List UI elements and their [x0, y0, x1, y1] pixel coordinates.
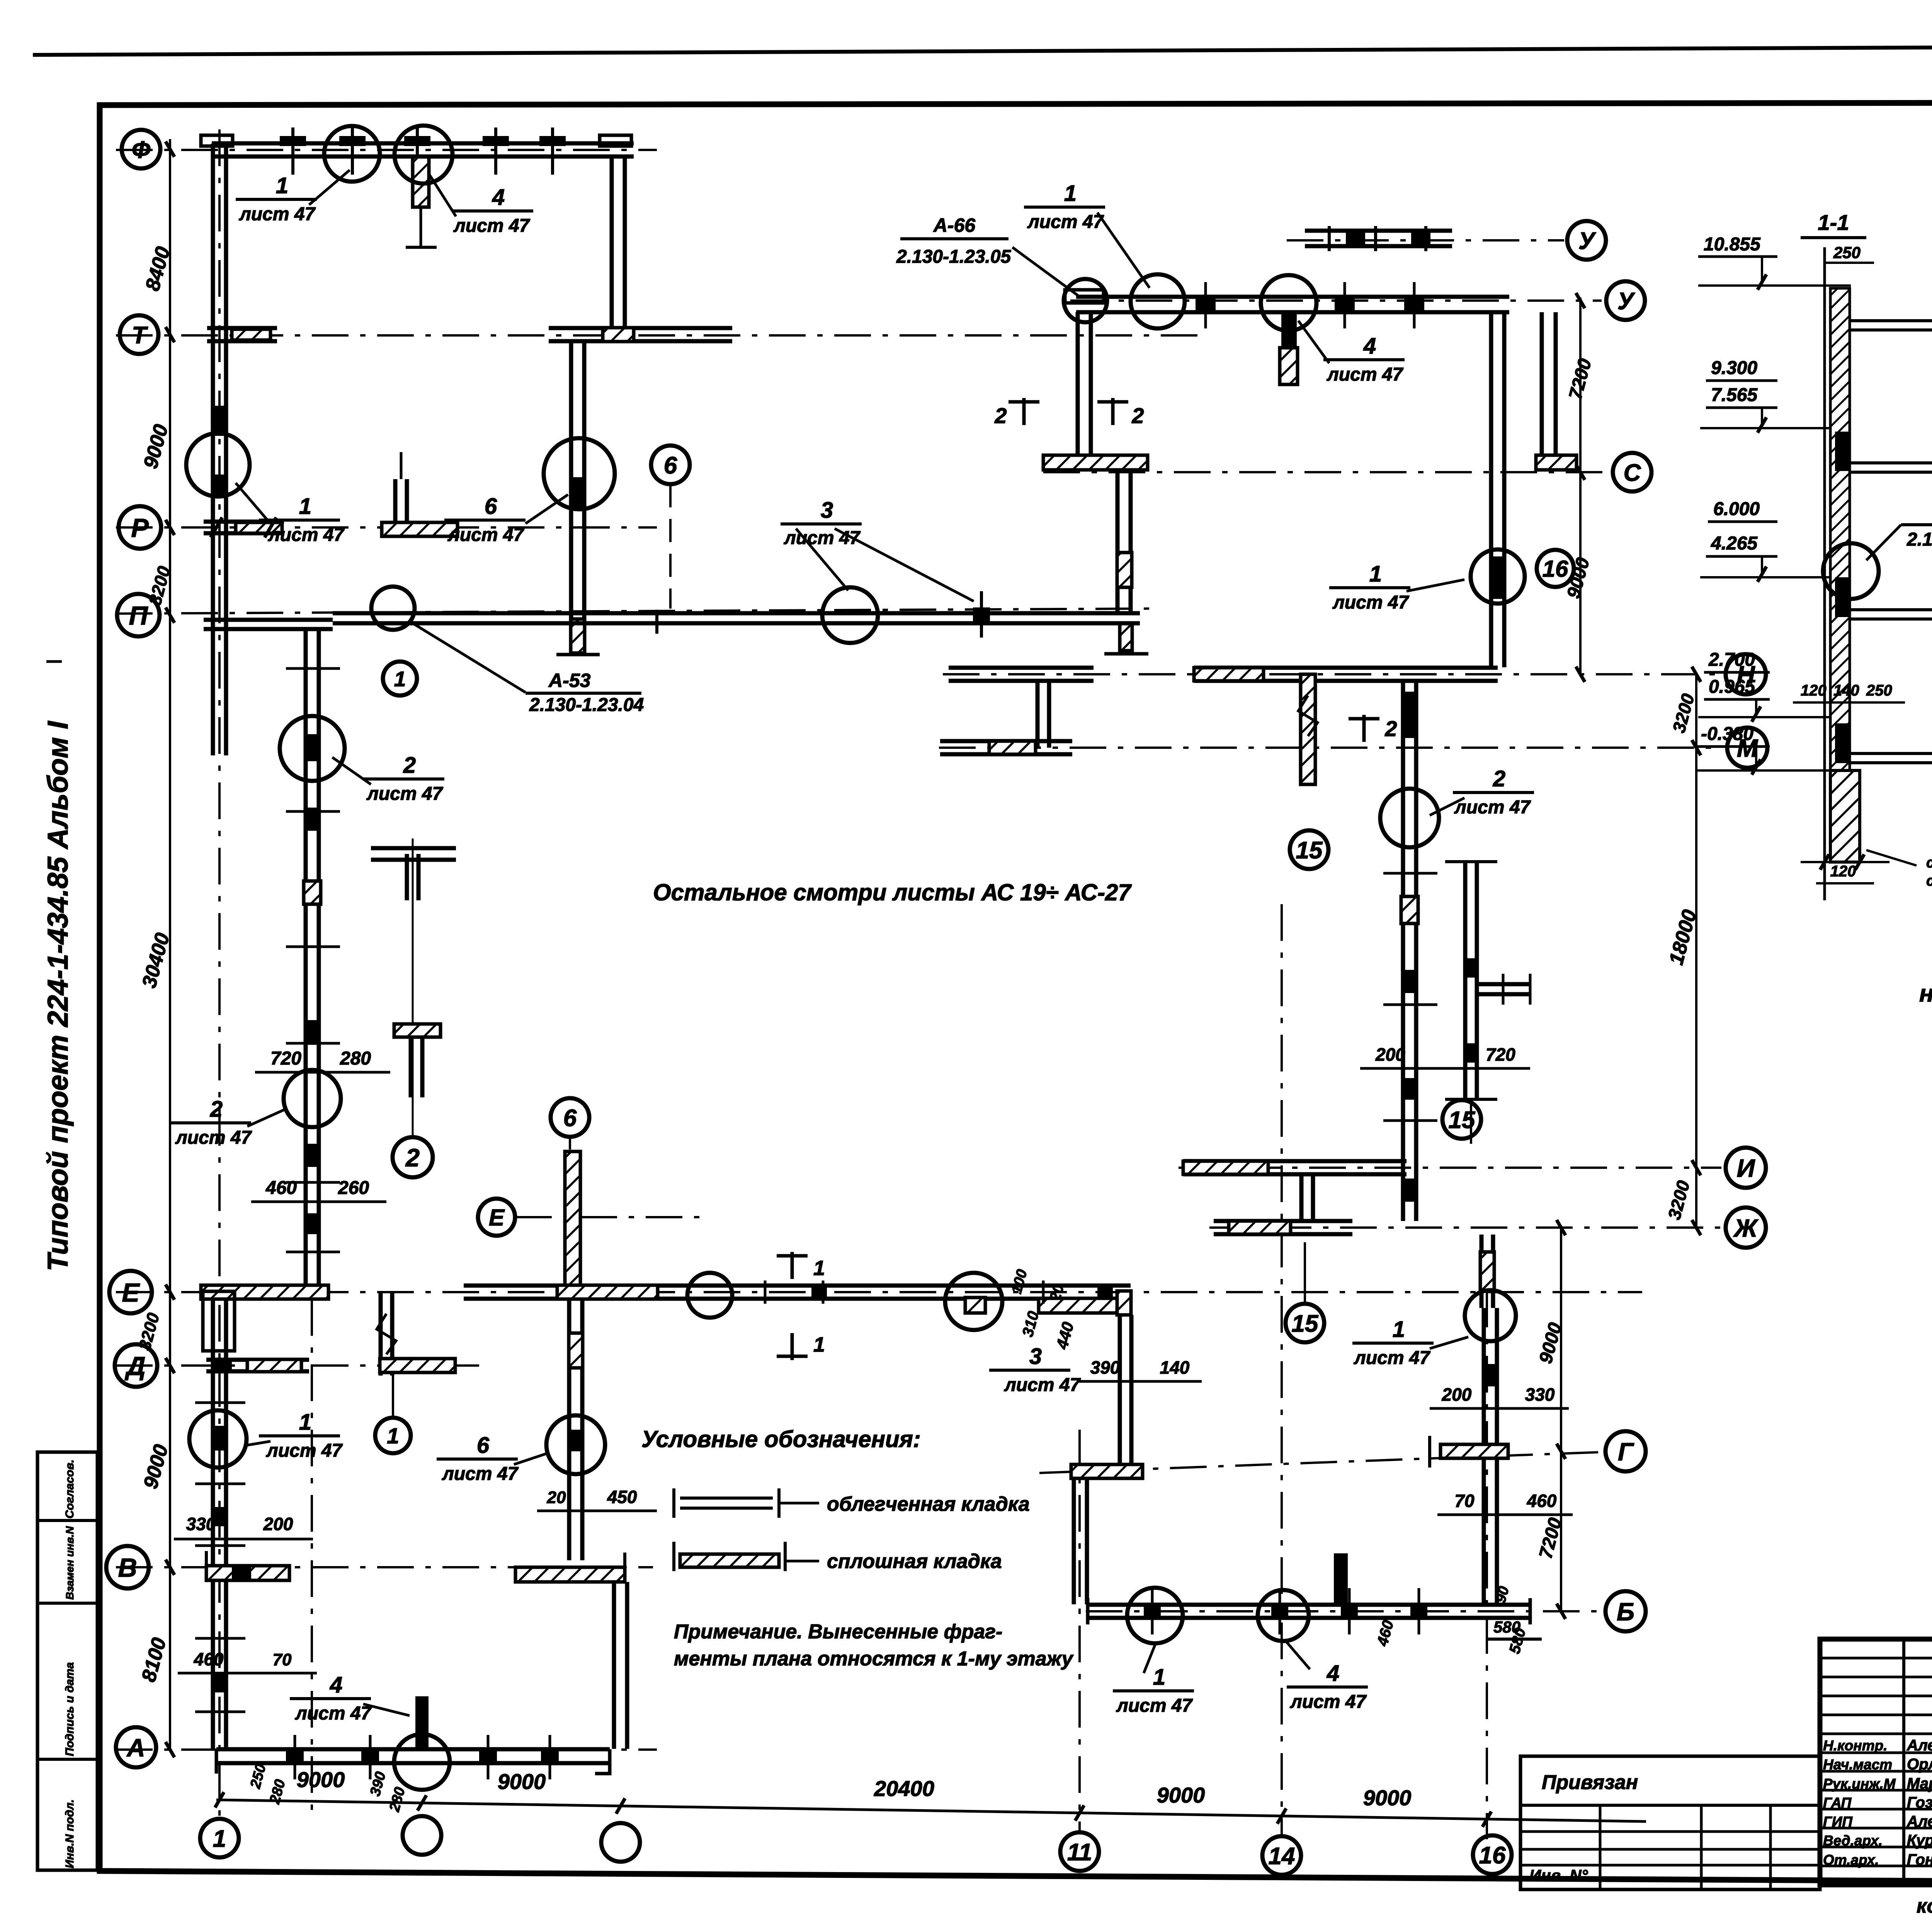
detail circle on F wall 2 — [395, 126, 452, 184]
corner at G — [1071, 1464, 1143, 1478]
G axis tick — [1428, 1436, 1431, 1468]
break zigzag — [1298, 696, 1318, 736]
svg-text:лист 47: лист 47 — [1354, 1348, 1431, 1368]
svg-text:2.130-1.23.18: 2.130-1.23.18 — [1906, 529, 1932, 550]
privyazan columns — [1599, 1805, 1602, 1889]
svg-text:6: 6 — [664, 452, 677, 479]
hatched pier at bottom of T-P wall — [571, 619, 585, 653]
axis 14 vertical line — [1281, 904, 1283, 1835]
detail circle a2 upper — [280, 716, 345, 781]
svg-text:лист 47: лист 47 — [447, 525, 525, 545]
svg-text:70: 70 — [1454, 1491, 1475, 1511]
wall along upper U axis — [1305, 229, 1452, 233]
axis2 thin line E-A — [311, 1299, 313, 1816]
fragment circle 1 — [375, 1418, 411, 1453]
wall along R axis left — [204, 520, 284, 524]
axis 16 bottom circle — [1473, 1835, 1512, 1874]
E long wall — [464, 1284, 1131, 1288]
wall along T axis — [549, 326, 732, 330]
leader lines 3 to circles — [796, 529, 848, 590]
axis G line — [1039, 1452, 1602, 1473]
detail circle a2 lower — [284, 1070, 341, 1127]
leader 2 lower — [247, 1109, 286, 1126]
axis 1 bottom circle — [200, 1819, 239, 1857]
leader to left wall circle — [236, 483, 270, 524]
axis D circle — [115, 1344, 157, 1387]
wall along V axis right piece — [515, 1567, 625, 1582]
leader 1 Zh — [1430, 1337, 1468, 1349]
svg-text:лист 47: лист 47 — [1290, 1692, 1367, 1712]
circle 16 right — [1537, 550, 1574, 587]
T-end parallel wall — [1445, 1098, 1497, 1101]
corner cap U wall left — [1065, 290, 1104, 303]
svg-text:Условные обозначения:: Условные обозначения: — [641, 1426, 921, 1452]
svg-text:4: 4 — [492, 185, 505, 210]
wall along M axis piece — [940, 739, 1072, 743]
svg-text:В: В — [118, 1553, 137, 1582]
hatch on S-N wall — [1117, 553, 1132, 587]
svg-text:Инв.N подл.: Инв.N подл. — [63, 1799, 76, 1868]
detail circle U wall 1 — [1131, 274, 1185, 328]
axis V circle — [106, 1546, 149, 1588]
corner wall at T left — [207, 326, 277, 330]
svg-text:4: 4 — [330, 1672, 342, 1697]
hatch block on long wall — [1401, 896, 1418, 923]
M fragment corner hatch — [989, 741, 1036, 754]
svg-text:1: 1 — [813, 1257, 825, 1280]
wall along P axis left part — [204, 618, 333, 622]
axis Zh line — [1209, 1226, 1721, 1229]
svg-text:2: 2 — [994, 403, 1007, 428]
svg-text:9000: 9000 — [297, 1767, 345, 1792]
axis I line — [1179, 1167, 1721, 1169]
svg-text:20400: 20400 — [874, 1776, 934, 1801]
svg-text:Рук.инж.М: Рук.инж.М — [1823, 1776, 1896, 1792]
svg-text:260: 260 — [338, 1178, 369, 1198]
fragment vertical hatch wall — [565, 1151, 580, 1287]
svg-text:А-66: А-66 — [933, 214, 976, 236]
svg-text:4: 4 — [1327, 1661, 1339, 1686]
leader line to detail circle F — [309, 170, 350, 205]
axis 1 vertical line — [218, 129, 221, 1816]
svg-text:16: 16 — [1479, 1842, 1506, 1869]
wall along V axis left piece — [206, 1566, 289, 1580]
svg-text:лист 47: лист 47 — [266, 1440, 343, 1461]
detail circle U wall 2 — [1261, 275, 1316, 331]
svg-text:2: 2 — [403, 753, 416, 778]
svg-text:Орлов: Орлов — [1907, 1756, 1932, 1773]
left wall G to B — [1072, 1478, 1076, 1604]
circle 1 mid — [391, 1434, 395, 1438]
detail circle B wall 1 — [1127, 1588, 1183, 1643]
block a2 5 — [305, 1213, 319, 1234]
svg-text:лист 47: лист 47 — [442, 1464, 519, 1484]
circle 15 a — [1290, 830, 1328, 869]
section 1-1 wall hatch bar — [1830, 288, 1850, 770]
detail circle U wall corner — [1064, 279, 1107, 322]
A wall right corner step — [595, 1749, 610, 1774]
signature table rows — [1820, 1657, 1932, 1660]
svg-text:140: 140 — [1160, 1357, 1190, 1378]
I-Zh connector wall — [1299, 1175, 1304, 1221]
right wall U-N — [1489, 312, 1493, 667]
U wall pier hatch below — [1280, 348, 1298, 384]
window piers on F wall — [280, 136, 306, 146]
detail circle below Zh — [1465, 1290, 1516, 1341]
svg-text:Р: Р — [131, 513, 149, 543]
wall along G axis piece — [1440, 1444, 1508, 1458]
axis 2 bottom circle (blank) — [403, 1816, 441, 1855]
leader 1 right — [1406, 580, 1464, 591]
axis 14 bottom circle — [1262, 1836, 1301, 1875]
svg-text:0.965: 0.965 — [1709, 677, 1755, 697]
svg-text:2.130-1.23.05: 2.130-1.23.05 — [896, 247, 1012, 267]
svg-text:2.700: 2.700 — [1708, 650, 1755, 670]
svg-text:140: 140 — [1833, 682, 1859, 699]
svg-text:4: 4 — [1363, 333, 1376, 359]
solid block on left wall 1 — [212, 406, 227, 436]
svg-text:9000: 9000 — [1363, 1786, 1412, 1810]
svg-text:200: 200 — [263, 1514, 293, 1534]
bottom dimension line — [216, 1800, 1646, 1821]
svg-text:стена теплоподвала: стена теплоподвала — [1926, 855, 1932, 871]
P wall window tick 1 — [655, 610, 658, 634]
svg-text:1-1: 1-1 — [1818, 210, 1849, 235]
second wall U-S right — [1540, 312, 1544, 454]
svg-text:С: С — [1624, 459, 1641, 486]
section mark 2 pair — [1022, 398, 1026, 425]
S axis hatch wall — [1043, 455, 1148, 470]
svg-text:11: 11 — [1067, 1839, 1092, 1866]
svg-text:460: 460 — [1527, 1491, 1557, 1511]
cross ticks long wall — [1383, 872, 1437, 875]
leader 2 wing — [1430, 798, 1464, 815]
blocks on left wall lower — [213, 1426, 228, 1451]
svg-text:9.300: 9.300 — [1711, 358, 1757, 378]
axis M line — [939, 747, 1721, 749]
black piers on U wall — [1196, 298, 1216, 311]
U wall pier detail black below — [1281, 312, 1297, 348]
detail circle long wall — [1380, 789, 1439, 847]
E wall hatch block — [557, 1285, 658, 1299]
svg-text:15: 15 — [1292, 1310, 1319, 1337]
svg-text:Остальное смотри листы АС 1: Остальное смотри листы АС 19÷ АС-27 — [653, 879, 1132, 905]
axis N line — [943, 673, 1721, 675]
axis U-upper line — [1287, 239, 1564, 241]
svg-text:Типовой проект 224-1-434.85: Типовой проект 224-1-434.85 Альбом I — [42, 721, 74, 1271]
svg-text:От.арх.: От.арх. — [1823, 1852, 1879, 1868]
leader 6 lower — [514, 1453, 549, 1464]
leader to U wall — [1097, 213, 1150, 288]
E wall hatch block at circle — [965, 1298, 985, 1313]
line 15c — [1304, 1242, 1306, 1304]
axis F circle — [122, 130, 160, 168]
svg-text:460: 460 — [265, 1178, 297, 1198]
B wall end caps — [1086, 1598, 1090, 1624]
left wall U-S — [1076, 312, 1080, 460]
svg-text:Алексеенко: Алексеенко — [1906, 1737, 1932, 1754]
wall below V x1606 — [612, 1582, 616, 1749]
hatch square a2 — [304, 881, 321, 904]
svg-text:1: 1 — [813, 1333, 825, 1356]
section 1-1 foundation hatch — [1830, 770, 1860, 862]
callout 42 leader — [1866, 525, 1901, 560]
svg-text:2.130-1.23.04: 2.130-1.23.04 — [529, 695, 644, 715]
svg-text:лист 47: лист 47 — [1327, 364, 1404, 385]
svg-text:У: У — [1578, 228, 1596, 254]
axis S line — [1043, 471, 1607, 473]
axis 3 bottom circle (blank) — [601, 1823, 640, 1862]
big detail circle T-P wall — [544, 438, 615, 509]
section 1-1 wall thin line — [1823, 247, 1826, 900]
leader line to pier detail — [429, 174, 456, 216]
axis U-upper circle — [1567, 221, 1606, 260]
svg-text:лист 47: лист 47 — [239, 204, 316, 224]
svg-text:460: 460 — [194, 1649, 224, 1669]
wall along A axis — [216, 1747, 610, 1752]
section mark 1 pair at E — [791, 1252, 794, 1279]
svg-text:720: 720 — [1486, 1044, 1515, 1065]
svg-text:1: 1 — [1064, 181, 1077, 206]
section 1-1 bottom ticks — [1801, 861, 1889, 863]
axis G circle — [1605, 1431, 1646, 1471]
circle 15 b — [1442, 1100, 1481, 1139]
axis B line — [1086, 1610, 1602, 1612]
svg-text:лист 47: лист 47 — [1454, 797, 1531, 818]
line 6 to wall — [569, 1137, 571, 1150]
privyazan rows — [1520, 1804, 1820, 1807]
svg-text:15: 15 — [1296, 837, 1323, 864]
axis D line — [116, 1364, 483, 1367]
signature table verticals — [1902, 1639, 1905, 1885]
circle 15 d — [1303, 1321, 1307, 1325]
svg-text:А: А — [126, 1733, 145, 1762]
svg-text:200: 200 — [1442, 1384, 1472, 1405]
P wall detail circle left — [371, 587, 415, 630]
P wall right corner hatched pier — [1120, 624, 1132, 651]
svg-text:менты плана относятся к 1-м: менты плана относятся к 1-му этажу — [674, 1648, 1074, 1670]
black block right wall — [1491, 556, 1505, 599]
axis T line — [116, 334, 1206, 337]
svg-text:И: И — [1737, 1154, 1755, 1182]
right dimension line Zh-G-B — [1560, 1229, 1562, 1613]
svg-text:2: 2 — [405, 1143, 420, 1172]
vertical hatched wall with break x3385 — [1301, 674, 1315, 784]
svg-text:9000: 9000 — [498, 1769, 546, 1794]
svg-text:Гозеров Б: Гозеров Б — [1907, 1794, 1932, 1811]
svg-text:1: 1 — [213, 1825, 226, 1852]
svg-text:лист 47: лист 47 — [175, 1128, 252, 1148]
detail circle right wall — [1471, 549, 1525, 604]
svg-text:580: 580 — [1493, 1618, 1520, 1636]
fragment circle 2 — [393, 1137, 433, 1177]
svg-text:10.855: 10.855 — [1704, 234, 1761, 255]
svg-text:Привязан: Привязан — [1542, 1771, 1638, 1794]
svg-text:лист 47: лист 47 — [1004, 1375, 1081, 1395]
fragment line down — [392, 1376, 394, 1418]
title block outer rect — [1820, 1639, 1932, 1885]
E wing connector wall — [1118, 1315, 1122, 1464]
svg-text:Курченко: Курченко — [1907, 1832, 1932, 1849]
ticks upper U wall — [1328, 226, 1331, 251]
svg-text:14: 14 — [1269, 1843, 1295, 1869]
svg-text:120: 120 — [1830, 863, 1856, 880]
wall along U axis — [1076, 295, 1509, 299]
svg-text:Взамен инв.N: Взамен инв.N — [64, 1526, 76, 1600]
svg-text:4.265: 4.265 — [1711, 533, 1758, 554]
svg-text:6: 6 — [563, 1105, 577, 1131]
leader 2 upper — [332, 757, 371, 784]
wall along Zh axis — [1214, 1219, 1352, 1223]
hatch blocks central wall — [569, 1333, 583, 1368]
svg-text:720: 720 — [270, 1048, 301, 1069]
svg-text:6: 6 — [477, 1433, 490, 1458]
svg-text:250: 250 — [1833, 243, 1861, 262]
fragment top corner wall — [371, 846, 456, 850]
svg-text:-0.380: -0.380 — [1701, 724, 1753, 744]
axis Zh circle — [1726, 1207, 1766, 1248]
svg-text:А-53: А-53 — [548, 670, 591, 691]
svg-text:Ж: Ж — [1733, 1214, 1759, 1242]
detail circle on F wall 1 — [324, 126, 380, 182]
line 6 to T wall — [669, 484, 672, 609]
label 6 circle right of T — [651, 446, 690, 484]
block a2 1 — [305, 734, 319, 761]
callout 42 circle — [1823, 543, 1879, 599]
A wall pier black up — [415, 1696, 429, 1749]
axis A line — [116, 1748, 657, 1751]
axis 11 bottom circle — [1060, 1832, 1099, 1871]
hatch below Zh — [1480, 1252, 1494, 1291]
svg-text:3: 3 — [821, 498, 833, 523]
leader — [247, 1441, 270, 1445]
pier detail hatch below F wall — [413, 157, 429, 207]
wall along D axis left — [206, 1358, 309, 1362]
svg-text:наружных стен из облегченно: наружных стен из облегченной кладки. — [1919, 980, 1932, 1007]
svg-text:Е: Е — [489, 1205, 505, 1231]
block on corridor wall — [571, 477, 585, 508]
svg-text:лист 47: лист 47 — [1027, 212, 1104, 232]
leader stena 1-1 — [1866, 850, 1917, 866]
leader — [1144, 1644, 1155, 1673]
section 1-1 black blocks — [1835, 432, 1850, 471]
axis F line — [116, 149, 657, 151]
svg-text:Б: Б — [1617, 1597, 1634, 1626]
svg-text:Гончаров: Гончаров — [1907, 1851, 1932, 1868]
fragment E circle — [478, 1199, 515, 1236]
D wall hatch — [247, 1359, 301, 1372]
axis M circle — [1727, 728, 1767, 768]
detail circle left wall lower — [189, 1410, 247, 1468]
blocks on long wall — [1403, 692, 1417, 738]
svg-text:16: 16 — [1543, 556, 1568, 582]
svg-text:Г: Г — [1618, 1437, 1634, 1466]
stub tick — [1502, 974, 1505, 1005]
svg-text:330: 330 — [1525, 1384, 1555, 1405]
svg-text:Е: Е — [122, 1278, 140, 1307]
svg-text:6.000: 6.000 — [1713, 499, 1760, 519]
axis U circle — [1606, 281, 1645, 320]
svg-text:20: 20 — [547, 1488, 566, 1507]
wall below Zh going down — [1480, 1235, 1484, 1308]
svg-text:2: 2 — [1384, 716, 1397, 741]
leader to T-P circle — [526, 495, 568, 524]
svg-text:Нач.маст: Нач.маст — [1823, 1757, 1892, 1772]
B wall pier black up — [1334, 1553, 1348, 1604]
svg-text:лист 47: лист 47 — [1332, 592, 1410, 613]
axis N circle — [1726, 654, 1766, 694]
axis I circle — [1726, 1148, 1766, 1188]
axis 16 vertical line — [1486, 1291, 1488, 1839]
corridor wall T-P at x1495 — [569, 342, 573, 618]
svg-text:Ф: Ф — [132, 136, 151, 163]
svg-text:330: 330 — [186, 1514, 216, 1534]
right dimension line U-S-N — [1579, 298, 1582, 676]
corridor wall axis2 P to E — [304, 628, 308, 1286]
S axis hatch wall right — [1536, 455, 1577, 470]
svg-text:1: 1 — [394, 667, 406, 691]
R axis T-detail hatch — [382, 522, 457, 536]
wall x3857 Zh to B — [1482, 1308, 1486, 1604]
svg-text:9000: 9000 — [1157, 1783, 1205, 1807]
svg-text:250: 250 — [1866, 682, 1892, 699]
black block on it — [1483, 1364, 1498, 1386]
svg-text:1: 1 — [1153, 1665, 1165, 1690]
svg-text:1: 1 — [276, 173, 288, 198]
svg-text:1: 1 — [1369, 561, 1382, 587]
E axis corner box — [203, 1291, 235, 1351]
central wall E to V x1490 — [567, 1299, 571, 1560]
svg-text:Алексеенко: Алексеенко — [1906, 1813, 1932, 1830]
detail circle A wall — [394, 1734, 450, 1790]
wall along B axis — [1088, 1603, 1530, 1607]
overline on album number I — [46, 660, 62, 663]
svg-text:3: 3 — [1029, 1344, 1042, 1369]
detail circle B wall 2 — [1258, 1590, 1309, 1641]
svg-text:лист 47: лист 47 — [366, 784, 444, 804]
axis V line — [116, 1566, 653, 1568]
svg-text:1: 1 — [1393, 1317, 1405, 1342]
svg-text:облегченная кладка: облегченная кладка — [827, 1493, 1030, 1515]
legend symbol light masonry — [680, 1497, 773, 1500]
svg-text:1: 1 — [299, 1410, 311, 1435]
V left black — [232, 1566, 251, 1580]
D wall black block — [215, 1359, 232, 1372]
fragment axis line vertical x1068 — [412, 838, 414, 1136]
black blocks on B wall — [1144, 1604, 1161, 1618]
svg-text:7.565: 7.565 — [1711, 385, 1758, 405]
legend symbol solid masonry — [680, 1554, 779, 1567]
Zh wall hatch — [1229, 1221, 1291, 1234]
axis E line — [116, 1291, 1642, 1293]
axis T circle — [120, 315, 158, 354]
V axis end ticks — [205, 1551, 208, 1580]
svg-text:П: П — [129, 601, 149, 630]
axis S circle — [1613, 453, 1651, 492]
fragment hatch at D — [380, 1359, 455, 1372]
T junction hatch — [603, 328, 634, 342]
E wall detail circle 2 — [945, 1273, 1002, 1330]
cross ticks left wall lower — [195, 1401, 245, 1404]
leader 4 U — [1298, 321, 1329, 363]
leader line from circle 1 to A-53 — [410, 621, 526, 692]
left wall E to A — [211, 1299, 215, 1749]
wall S to P-junction — [1116, 470, 1120, 614]
axis P line — [116, 609, 1151, 614]
axis B circle — [1605, 1591, 1646, 1631]
svg-text:Согласов.: Согласов. — [63, 1459, 76, 1519]
block a2 2 — [305, 808, 319, 831]
